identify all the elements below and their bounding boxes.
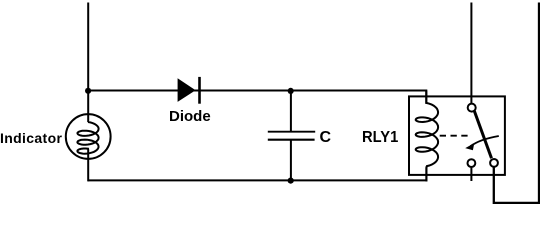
label "RLY1" [362,129,398,147]
capacitor C top plate [268,131,315,133]
indicator lamp filament coil [77,115,98,159]
wire: top rail from indicator junction to relay coil stub [88,91,426,104]
diode cathode bar [198,77,201,104]
actuation arrowhead [465,143,474,150]
contact terminal: NO (bottom-right circle) [490,159,498,167]
actuation arrow (curved) [471,136,499,146]
wire: indicator bottom lead [87,159,89,182]
indicator lamp body [66,114,111,159]
diode D anode wire handled by top rail; diode triangle [178,78,196,102]
junction: cap top [288,88,294,94]
capacitor C top lead [290,91,292,132]
label "Indicator" [0,130,62,146]
relay RLY1 coil winding [416,91,438,182]
label "Diode" [169,108,211,125]
wire: bottom rail from indicator to relay coil stub [88,167,426,181]
linkage: dashed line coil to armature [440,135,470,137]
wire: common contact from top edge [470,3,472,104]
junction: cap bottom [288,178,294,184]
wire: NC stub below box [470,167,472,181]
junction: top rail at indicator [85,88,91,94]
wire: left supply vertical into indicator [87,3,89,115]
capacitor C bottom plate [268,139,315,141]
contact terminal: NC (bottom-left circle) [468,159,476,167]
contact terminal: common (top circle) [468,104,476,112]
relay armature (switch arm) [474,111,491,158]
relay RLY1 enclosure box [409,96,505,174]
capacitor C bottom lead [290,140,292,181]
label "C" [320,129,332,147]
wire: NO terminal down, right and up to top edge [494,3,539,203]
